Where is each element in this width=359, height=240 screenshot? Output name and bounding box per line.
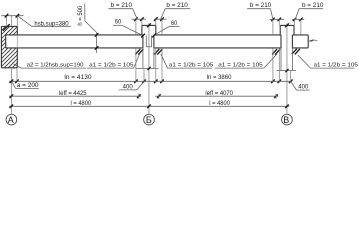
support tick at wall A (3, 24, 10, 31)
beam outline (6, 35, 309, 48)
svg-text:А: А (8, 115, 14, 125)
extension lines bearing edges to chain at B (136, 48, 162, 82)
axis line A (10, 16, 12, 115)
a2 = 1/2hsb,sup=190 label (14, 62, 87, 68)
upper column (goalpost) at V (280, 25, 294, 35)
a1 = 1/2b = 105 label span2 left (161, 54, 214, 68)
double support marks below beam at V (272, 49, 300, 55)
svg-text:hsb,sup=380: hsb,sup=380 (34, 22, 69, 28)
double support marks below beam at B (135, 49, 162, 55)
leff line span 1 (9, 94, 141, 99)
girder gap verticals at V column (281, 35, 292, 48)
svg-text:a1 = 1/2b = 105: a1 = 1/2b = 105 (169, 62, 213, 68)
axis tick on goalpost B (147, 23, 151, 27)
wall outline (1, 26, 17, 67)
column sides inside gap at B (146, 36, 151, 47)
axis tick on stub bottom at V (285, 69, 288, 72)
svg-text:В: В (283, 115, 289, 125)
axis circle A (6, 114, 17, 125)
axis circle B (144, 114, 155, 125)
b = 210 dimension lines at column B (131, 17, 166, 35)
b = 210 label right of V (295, 3, 324, 19)
400 label at V (291, 82, 310, 91)
axis tick on stub bottom at B (147, 67, 150, 70)
400 label at B (119, 82, 144, 91)
b = 210 dimension lines at column V (270, 18, 305, 35)
axis circle V (282, 114, 293, 125)
l line axis to axis (9, 105, 289, 109)
wall face line through beam (16, 35, 18, 48)
b = 210 label left of B (108, 3, 137, 19)
svg-text:Б: Б (146, 115, 152, 125)
svg-text:60: 60 (115, 20, 122, 26)
a1 = 1/2b = 105 label span2 right (215, 54, 277, 68)
svg-text:a1 = 1/2b = 105: a1 = 1/2b = 105 (89, 62, 133, 68)
chain dimension line ln row (9, 80, 293, 84)
leff line span 2 (155, 94, 278, 99)
support ticks on beam top at B column (141, 34, 156, 38)
extension lines bearing edges to chain at V (273, 48, 291, 82)
a1 = 1/2b = 105 label right of V (298, 55, 358, 68)
b = 210 label right of B (161, 3, 191, 19)
svg-text:leff = 4425: leff = 4425 (59, 91, 87, 97)
beam break symbol right end (308, 39, 317, 41)
svg-text:h = 500: h = 500 (77, 5, 84, 25)
svg-text:ln = 4130: ln = 4130 (64, 75, 92, 81)
svg-text:l = 4800: l = 4800 (209, 101, 230, 107)
axis line B (Cyr) (148, 23, 150, 114)
column stub below beam at V (277, 48, 297, 71)
b = 210 label left of V (247, 3, 273, 19)
axis tick on goalpost V (285, 23, 289, 27)
h = 500 beam height annotation (77, 3, 98, 53)
svg-text:l = 4800: l = 4800 (71, 101, 92, 107)
svg-text:a1 = 1/2b = 105: a1 = 1/2b = 105 (218, 62, 262, 68)
wall hatch left support (0, 0, 32, 104)
extension wall face to chain (16, 68, 18, 82)
60 label left of B (113, 20, 141, 35)
svg-text:a1 = 1/2b = 105: a1 = 1/2b = 105 (314, 62, 358, 68)
hsb,sup=380 dimension (1, 14, 71, 28)
svg-text:ln = 3860: ln = 3860 (207, 75, 232, 81)
a = 200 label (12, 82, 40, 90)
upper column (goalpost) at B (142, 25, 156, 35)
column stub below beam at B (136, 48, 159, 69)
axis line V (Cyr) (286, 23, 288, 114)
svg-text:a2 = 1/2hsb,sup=190: a2 = 1/2hsb,sup=190 (27, 62, 84, 68)
girder gap verticals at B column (143, 35, 154, 48)
a1 = 1/2b = 105 label span1 right (87, 54, 140, 68)
60 label right of B (157, 21, 180, 34)
svg-text:leff = 4070: leff = 4070 (205, 91, 233, 97)
